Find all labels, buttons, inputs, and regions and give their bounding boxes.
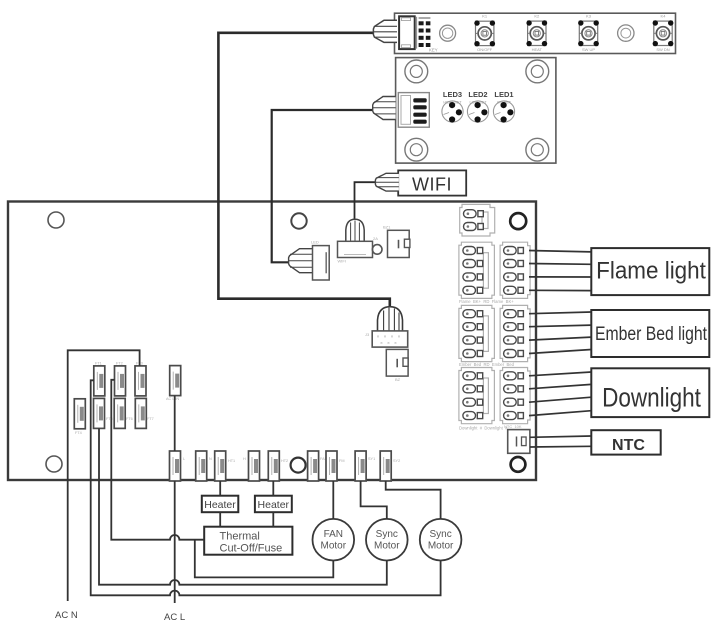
wire C T2 to thermal left bbox=[111, 380, 204, 540]
svg-text:2A: 2A bbox=[373, 236, 378, 241]
wire B7 to FAN motor bbox=[332, 481, 334, 519]
svg-text:AC N: AC N bbox=[55, 610, 78, 621]
wire heater H1 to thermal bbox=[219, 512, 221, 527]
svg-text:Motor: Motor bbox=[374, 541, 400, 552]
svg-text:K3: K3 bbox=[586, 14, 592, 19]
connector group CN4 flame left block bbox=[459, 242, 495, 298]
LED display PCB bbox=[396, 58, 556, 164]
switch K4 bbox=[653, 14, 674, 53]
wires CN9 to Downlight bbox=[529, 372, 591, 416]
svg-text:×: × bbox=[377, 334, 380, 339]
wire AC L drop bbox=[174, 481, 176, 603]
svg-text:N: N bbox=[209, 457, 212, 461]
connector group CN6 ember left block bbox=[459, 305, 495, 361]
svg-text:BZ: BZ bbox=[395, 377, 401, 382]
faston terminal T8 bbox=[166, 366, 181, 401]
svg-text:Downlight: Downlight bbox=[602, 384, 701, 413]
svg-text:×: × bbox=[387, 341, 390, 346]
key strip connector CN1 pins bbox=[419, 17, 431, 47]
svg-text:NTC 10K: NTC 10K bbox=[504, 424, 522, 429]
bottom terminal B5 bbox=[268, 451, 288, 481]
LED board connector CN2 pins bbox=[413, 98, 426, 123]
svg-text:SW DN: SW DN bbox=[656, 47, 669, 52]
connector group CN5 flame right block bbox=[500, 242, 530, 298]
connector J3 housing bbox=[365, 331, 408, 347]
LED board hole H4 bbox=[526, 60, 549, 83]
svg-text:Motor: Motor bbox=[321, 541, 347, 552]
svg-text:×: × bbox=[380, 341, 383, 346]
key strip PCB bbox=[395, 13, 676, 53]
mounting hole top-middle bbox=[291, 213, 306, 228]
faston terminal T6 bbox=[114, 398, 133, 428]
svg-text:SW UP: SW UP bbox=[582, 47, 595, 52]
svg-text:Cut-Off/Fuse: Cut-Off/Fuse bbox=[220, 543, 283, 555]
svg-text:LED3: LED3 bbox=[443, 90, 462, 99]
svg-text:KEY: KEY bbox=[429, 48, 438, 53]
bottom terminal B1 bbox=[170, 451, 186, 481]
svg-text:H: H bbox=[243, 457, 246, 461]
switch K3 bbox=[578, 14, 599, 53]
svg-text:Heater: Heater bbox=[204, 499, 236, 511]
svg-text:Thermal: Thermal bbox=[220, 531, 260, 543]
LED1 bbox=[493, 90, 514, 123]
sync motor M1 bbox=[366, 519, 408, 561]
FAN motor bbox=[313, 519, 355, 561]
mounting hole top-right bbox=[510, 213, 526, 229]
connector CN3 two-pin bbox=[460, 204, 495, 236]
key strip hole H2 bbox=[618, 25, 634, 41]
svg-text:FT4: FT4 bbox=[75, 431, 82, 435]
svg-text:FT2: FT2 bbox=[116, 362, 123, 366]
svg-text:FT6: FT6 bbox=[126, 417, 133, 421]
mounting hole top-left bbox=[48, 212, 64, 228]
wire LED board to main board connector J2 bbox=[272, 110, 373, 262]
wire D thermal junction to FAN motor return bbox=[195, 540, 333, 578]
LED board wire plug P2 bbox=[373, 97, 396, 120]
WIFI module box bbox=[398, 170, 466, 195]
wire B T5 to sync motor M1 return bbox=[99, 428, 387, 584]
loop ring right of J1 bbox=[372, 245, 382, 255]
wires CN7 to Ember Bed light bbox=[529, 312, 591, 354]
wires CN5 to Flame light bbox=[529, 251, 591, 291]
svg-text:AC L IN: AC L IN bbox=[166, 397, 179, 401]
LED2 bbox=[467, 90, 488, 123]
svg-text:K2: K2 bbox=[534, 14, 540, 19]
svg-text:HEAT: HEAT bbox=[532, 47, 543, 52]
connector group CN8 downlight left block bbox=[459, 368, 495, 424]
faston terminal T4 bbox=[74, 399, 85, 435]
connector J1 dome plug bbox=[346, 219, 364, 241]
connector J3 dome plug bbox=[378, 307, 403, 331]
svg-text:HT1: HT1 bbox=[228, 459, 235, 463]
connector group CN9 downlight right block bbox=[500, 368, 530, 424]
wire A T1 to sync motor M2 return bbox=[91, 380, 441, 595]
svg-text:LED2: LED2 bbox=[468, 90, 487, 99]
svg-text:×: × bbox=[394, 341, 397, 346]
bottom terminal B3 bbox=[215, 451, 235, 481]
Ember Bed light box bbox=[591, 310, 709, 357]
wire heater H2 to thermal bbox=[272, 512, 274, 527]
mounting hole bottom-left bbox=[46, 456, 62, 472]
faston terminal T7 bbox=[135, 398, 153, 428]
switch K1 bbox=[474, 14, 495, 53]
svg-text:BZ1: BZ1 bbox=[383, 225, 391, 230]
wire key strip to main board connector J3 bbox=[218, 33, 389, 308]
LED board hole H6 bbox=[526, 138, 549, 161]
WIFI wire plug P3 bbox=[375, 173, 399, 191]
faston terminal T1 bbox=[94, 362, 105, 396]
connector J2 housing bbox=[311, 240, 329, 281]
svg-text:FM: FM bbox=[339, 459, 344, 463]
wires CN10 to NTC bbox=[530, 436, 591, 447]
svg-text:K1: K1 bbox=[482, 14, 488, 19]
svg-text:LED1: LED1 bbox=[494, 90, 513, 99]
svg-text:×: × bbox=[398, 334, 401, 339]
key strip connector CN1 housing bbox=[399, 16, 417, 49]
svg-text:Flame light: Flame light bbox=[596, 257, 706, 284]
NTC box bbox=[591, 430, 660, 454]
key strip hole H1 bbox=[440, 25, 456, 41]
component X2 bbox=[386, 349, 408, 382]
svg-text:ON/OFF: ON/OFF bbox=[477, 47, 493, 52]
wire B9 to sync motor M2 bbox=[386, 481, 441, 519]
svg-text:L: L bbox=[183, 457, 185, 461]
heater H2 box bbox=[255, 496, 292, 513]
svg-text:K4: K4 bbox=[661, 14, 667, 19]
connector J2 plug cone bbox=[288, 249, 312, 273]
svg-text:Sync: Sync bbox=[376, 529, 398, 540]
connector CN10 NTC bbox=[504, 424, 530, 453]
svg-text:SY1: SY1 bbox=[368, 457, 375, 461]
svg-text:Ember Bed RD Ember Bed: Ember Bed RD Ember Bed bbox=[459, 362, 515, 367]
LED board hole H3 bbox=[405, 60, 428, 83]
Downlight box bbox=[591, 368, 709, 417]
faston terminal T3 bbox=[135, 362, 146, 396]
connector group CN7 ember right block bbox=[500, 305, 530, 361]
svg-text:HT2: HT2 bbox=[281, 459, 288, 463]
svg-text:FAN: FAN bbox=[324, 529, 343, 540]
svg-text:FT7: FT7 bbox=[147, 417, 154, 421]
svg-text:Flame BK+ RD Flame BK+: Flame BK+ RD Flame BK+ bbox=[459, 299, 514, 304]
heater H1 box bbox=[202, 496, 239, 513]
bottom terminal B7 bbox=[326, 451, 344, 481]
wire WIFI module to main board connector J1 bbox=[355, 182, 376, 219]
LED board connector CN2 housing bbox=[398, 93, 429, 128]
wire B8 to sync motor M1 bbox=[361, 481, 387, 519]
wire T8 to B1 bbox=[174, 396, 176, 451]
svg-text:LED: LED bbox=[311, 240, 319, 245]
bottom terminal B2 bbox=[196, 451, 212, 481]
Flame light box bbox=[591, 248, 709, 295]
svg-text:×: × bbox=[391, 334, 394, 339]
svg-text:Sync: Sync bbox=[429, 529, 451, 540]
bottom terminal B9 bbox=[380, 451, 400, 481]
svg-text:NTC: NTC bbox=[612, 437, 645, 454]
svg-text:AC L: AC L bbox=[164, 612, 185, 623]
faston terminal T2 bbox=[115, 362, 126, 396]
main control board PCB bbox=[8, 202, 536, 481]
LED board hole H5 bbox=[405, 138, 428, 161]
svg-text:WIFI: WIFI bbox=[412, 174, 452, 194]
key strip wire plug P1 bbox=[373, 20, 397, 42]
svg-text:Heater: Heater bbox=[258, 499, 290, 511]
thermal cutoff box bbox=[204, 527, 292, 555]
bottom terminal B4 bbox=[243, 451, 260, 481]
sync motor M2 bbox=[420, 519, 462, 561]
LED3 bbox=[442, 90, 463, 123]
bottom terminal B8 bbox=[355, 451, 375, 481]
svg-text:Ember Bed light: Ember Bed light bbox=[595, 323, 707, 345]
wire loop ACN to T3 bbox=[68, 350, 140, 601]
svg-text:Motor: Motor bbox=[428, 541, 454, 552]
bottom terminal B6 bbox=[308, 451, 328, 481]
wire B5 to heater H2 bbox=[272, 481, 274, 496]
mounting hole bottom-middle bbox=[291, 458, 306, 473]
switch K2 bbox=[526, 14, 547, 53]
component X1 buzzer bbox=[383, 225, 410, 258]
svg-text:SY2: SY2 bbox=[393, 459, 400, 463]
svg-text:WIFI: WIFI bbox=[338, 259, 346, 264]
wire B3 to heater H1 bbox=[219, 481, 221, 496]
connector J1 housing bbox=[338, 236, 379, 264]
mounting hole bottom-right bbox=[511, 457, 526, 472]
svg-text:×: × bbox=[384, 334, 387, 339]
svg-text:Downlight # Downlight #: Downlight # Downlight # bbox=[459, 426, 508, 431]
faston terminal T5 bbox=[94, 398, 113, 428]
svg-text:FT1: FT1 bbox=[95, 362, 102, 366]
